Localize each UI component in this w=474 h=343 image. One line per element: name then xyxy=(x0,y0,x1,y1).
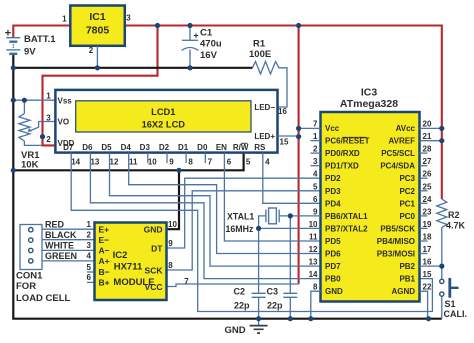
svg-text:18: 18 xyxy=(423,233,432,242)
svg-text:7: 7 xyxy=(184,277,189,286)
svg-text:11: 11 xyxy=(129,158,138,167)
svg-text:9V: 9V xyxy=(24,47,36,58)
svg-text:FOR: FOR xyxy=(16,281,36,292)
svg-text:2: 2 xyxy=(46,135,51,144)
svg-text:LED+: LED+ xyxy=(254,132,275,141)
stub ATmega pin24 PC1 xyxy=(420,202,428,204)
svg-text:14: 14 xyxy=(309,270,318,279)
svg-text:RED: RED xyxy=(45,220,65,230)
svg-text:D3: D3 xyxy=(140,143,151,152)
stub ATmega pin26 PC3 xyxy=(420,177,428,179)
svg-text:CON1: CON1 xyxy=(16,271,43,282)
svg-text:16X2 LCD: 16X2 LCD xyxy=(142,120,186,130)
svg-text:6: 6 xyxy=(87,273,92,282)
labels ATmega right ports xyxy=(377,124,416,296)
labels LCD pin numbers row xyxy=(71,158,270,167)
LCD1 screen xyxy=(76,101,251,132)
svg-text:GREEN: GREEN xyxy=(45,251,77,261)
capacitor C1 plates xyxy=(182,39,198,41)
wire ground: battery minus down left side and bottom bus (black) xyxy=(13,54,442,319)
svg-text:10K: 10K xyxy=(21,160,39,171)
wire S1 bottom to ground xyxy=(441,297,443,319)
svg-text:22p: 22p xyxy=(234,301,250,311)
stub ATmega pin23 PC0 xyxy=(420,215,428,217)
crystal XTAL1 body xyxy=(269,208,277,224)
stub ATmega pin17 PB3 xyxy=(420,253,428,255)
svg-text:PB5/SCK: PB5/SCK xyxy=(380,224,415,233)
svg-text:Vcc: Vcc xyxy=(325,124,340,133)
svg-text:9: 9 xyxy=(313,207,318,216)
wire LCD Vss to ground left bus xyxy=(13,99,55,101)
svg-text:9: 9 xyxy=(168,239,173,248)
crystal XTAL1 plates xyxy=(266,210,279,223)
capacitor C2 leads xyxy=(258,228,260,318)
potentiometer VR1 zigzag xyxy=(19,114,30,142)
svg-text:24: 24 xyxy=(423,195,432,204)
svg-text:VCC: VCC xyxy=(145,282,163,292)
svg-text:7: 7 xyxy=(313,120,318,129)
svg-text:IC3: IC3 xyxy=(361,87,378,99)
stub ATmega pin1 PC6 xyxy=(311,140,321,142)
wire CON1 to HX711 A+ xyxy=(42,260,95,262)
svg-text:R1: R1 xyxy=(253,39,266,50)
capacitor C3 plates xyxy=(283,293,297,297)
svg-text:E+: E+ xyxy=(99,224,110,234)
svg-text:12: 12 xyxy=(309,245,318,254)
svg-text:ATmega328: ATmega328 xyxy=(340,98,398,110)
svg-text:100E: 100E xyxy=(249,49,271,60)
svg-text:4: 4 xyxy=(265,158,270,167)
stub ATmega pin19 PB5 xyxy=(420,227,428,229)
svg-text:WHITE: WHITE xyxy=(45,241,74,251)
svg-text:D4: D4 xyxy=(121,143,132,152)
svg-text:15: 15 xyxy=(280,138,289,147)
svg-text:D6: D6 xyxy=(82,143,93,152)
svg-text:8: 8 xyxy=(313,283,318,292)
wire ground branch to HX711 GND pin 10 (black) xyxy=(167,170,180,229)
crystal XTAL1 leads xyxy=(259,216,321,229)
wire ground to LCD R/W pin 5 (black) xyxy=(13,153,243,171)
wire ATmega AVREF pin21 xyxy=(420,140,442,142)
svg-text:PC6/RESET: PC6/RESET xyxy=(325,137,370,146)
svg-text:C1: C1 xyxy=(200,28,213,39)
svg-text:1: 1 xyxy=(87,220,92,229)
wire ATmega Vcc pin7 to +5V xyxy=(299,127,321,129)
svg-text:PD3: PD3 xyxy=(325,187,341,196)
stub HX711 B- xyxy=(87,271,95,273)
svg-text:VO: VO xyxy=(58,118,70,127)
svg-text:15: 15 xyxy=(423,270,432,279)
pin numbers ATmega right xyxy=(423,120,432,292)
svg-text:A+: A+ xyxy=(99,256,110,266)
svg-text:25: 25 xyxy=(423,182,432,191)
LCD1 module box xyxy=(55,90,277,153)
svg-text:3: 3 xyxy=(46,114,51,123)
svg-text:D1: D1 xyxy=(178,143,189,152)
switch S1 actuator stem xyxy=(450,287,459,289)
wire VR1 top to Vss node xyxy=(23,100,25,113)
svg-text:PB2: PB2 xyxy=(399,262,415,271)
capacitor C3 leads xyxy=(289,216,291,319)
svg-text:9: 9 xyxy=(169,158,174,167)
svg-text:5: 5 xyxy=(87,263,92,272)
svg-text:27: 27 xyxy=(423,157,432,166)
wire HX711 SCK to ATmega PD3 xyxy=(167,191,321,270)
svg-text:S1: S1 xyxy=(445,299,456,309)
svg-text:10: 10 xyxy=(309,220,318,229)
svg-text:6: 6 xyxy=(227,158,232,167)
svg-text:3: 3 xyxy=(126,14,131,23)
svg-text:16MHz: 16MHz xyxy=(226,224,254,234)
svg-text:8: 8 xyxy=(168,261,173,270)
wire LED+ to +5V xyxy=(278,135,299,137)
svg-text:11: 11 xyxy=(309,233,318,242)
svg-text:4: 4 xyxy=(87,252,92,261)
svg-text:B+: B+ xyxy=(99,278,110,288)
pin numbers HX711 left xyxy=(87,220,92,282)
labels ATmega left ports xyxy=(325,124,370,296)
svg-text:7: 7 xyxy=(208,158,213,167)
svg-text:5: 5 xyxy=(246,158,251,167)
svg-text:GND: GND xyxy=(225,325,246,336)
wire LCD D6 to ATmega PB0 xyxy=(90,153,320,279)
wire +5V branch to LCD VDD via VR1 (red) xyxy=(43,26,158,146)
overline on W of R/W xyxy=(241,142,248,144)
svg-text:1: 1 xyxy=(313,132,318,141)
svg-text:3: 3 xyxy=(87,241,92,250)
svg-text:16V: 16V xyxy=(200,50,218,61)
svg-text:4.7K: 4.7K xyxy=(446,221,466,231)
svg-text:AGND: AGND xyxy=(391,287,415,296)
svg-text:21: 21 xyxy=(423,132,432,141)
stub ATmega pin18 PB4 xyxy=(420,240,428,242)
pin numbers HX711 right xyxy=(168,220,189,286)
svg-text:PC1: PC1 xyxy=(399,199,415,208)
svg-text:XTAL1: XTAL1 xyxy=(227,212,254,222)
svg-text:3: 3 xyxy=(313,157,318,166)
svg-text:14: 14 xyxy=(71,158,80,167)
svg-text:+: + xyxy=(193,31,198,41)
svg-text:470u: 470u xyxy=(200,38,222,49)
svg-text:PD2: PD2 xyxy=(325,174,341,183)
stub ATmega pin28 PC5 xyxy=(420,152,428,154)
wire ground top bus to R1 (black) xyxy=(13,67,252,69)
svg-text:C2: C2 xyxy=(234,287,246,297)
svg-text:5: 5 xyxy=(313,182,318,191)
svg-text:PD5: PD5 xyxy=(325,237,341,246)
wire CON1 to HX711 E- xyxy=(42,239,95,241)
svg-text:DT: DT xyxy=(151,244,163,254)
svg-text:PC3: PC3 xyxy=(399,174,415,183)
capacitor C1 leads xyxy=(189,26,191,68)
svg-text:AVREF: AVREF xyxy=(388,137,415,146)
stub LCD D1 xyxy=(185,153,187,163)
svg-text:13: 13 xyxy=(309,258,318,267)
svg-text:19: 19 xyxy=(423,220,432,229)
svg-text:LCD1: LCD1 xyxy=(151,107,175,117)
svg-text:10: 10 xyxy=(148,158,157,167)
svg-text:BLACK: BLACK xyxy=(45,230,77,240)
node junction dots xyxy=(11,23,445,321)
svg-text:8: 8 xyxy=(188,158,193,167)
stub ATmega pin27 PC4 xyxy=(420,165,428,167)
svg-text:PB7/XTAL2: PB7/XTAL2 xyxy=(325,224,368,233)
svg-text:Vss: Vss xyxy=(58,96,73,105)
wire ATmega AGND pin22 to ground xyxy=(420,291,428,319)
svg-text:PB6/XTAL1: PB6/XTAL1 xyxy=(325,212,368,221)
svg-text:D0: D0 xyxy=(197,143,208,152)
svg-text:12: 12 xyxy=(110,158,119,167)
wire LCD D7 to ATmega PB1 xyxy=(71,153,432,312)
svg-text:D2: D2 xyxy=(159,143,170,152)
svg-text:PD0/RXD: PD0/RXD xyxy=(325,149,360,158)
wire IC1 pin2 to ground xyxy=(96,46,98,68)
svg-text:PC4/SDA: PC4/SDA xyxy=(380,162,415,171)
svg-text:PD4: PD4 xyxy=(325,199,341,208)
svg-text:PB0: PB0 xyxy=(325,275,341,284)
svg-text:BATT.1: BATT.1 xyxy=(24,34,56,45)
overline RESET xyxy=(343,136,367,138)
wire HX711 VCC to +5V xyxy=(167,284,299,287)
wire LCD RS to ATmega PD4 xyxy=(263,153,321,204)
stub ATmega pin25 PC2 xyxy=(420,190,428,192)
svg-text:R/W: R/W xyxy=(233,143,249,152)
svg-text:1: 1 xyxy=(62,15,67,24)
svg-text:16: 16 xyxy=(423,258,432,267)
svg-text:SCK: SCK xyxy=(145,266,164,276)
wire LCD D4 to ATmega PD6 xyxy=(129,153,321,254)
svg-text:16: 16 xyxy=(278,107,287,116)
pin numbers ATmega left xyxy=(309,120,318,292)
wire +5V branch down middle to HX711 VCC (red) xyxy=(298,26,300,284)
svg-text:2: 2 xyxy=(87,231,92,240)
svg-text:GND: GND xyxy=(144,224,163,234)
wire ATmega AVcc pin20 xyxy=(420,127,442,129)
svg-text:7805: 7805 xyxy=(86,25,110,37)
stub LCD D2 xyxy=(166,153,168,163)
svg-text:2: 2 xyxy=(89,46,94,55)
wire +9V battery to IC1 pin1 (red) xyxy=(13,26,70,39)
svg-text:AVcc: AVcc xyxy=(396,124,416,133)
IC3 ATmega328 box xyxy=(321,112,420,302)
IC1 7805 regulator box xyxy=(70,6,125,46)
svg-text:17: 17 xyxy=(423,245,432,254)
wire CON1 to HX711 E+ xyxy=(42,228,95,230)
switch S1 contact circles xyxy=(440,279,444,296)
capacitor C2 plates xyxy=(252,293,266,297)
svg-text:10: 10 xyxy=(168,220,177,229)
svg-text:PD7: PD7 xyxy=(325,262,341,271)
wire ATmega PB2 pin16 to R2/S1 xyxy=(420,265,442,267)
wire CON1 to HX711 A- xyxy=(42,249,95,251)
svg-text:PD1/TXD: PD1/TXD xyxy=(325,162,359,171)
svg-text:RS: RS xyxy=(254,143,266,152)
svg-text:22p: 22p xyxy=(267,301,283,311)
IC2 HX711 module box xyxy=(95,223,167,301)
svg-text:D7: D7 xyxy=(63,143,74,152)
ground symbol GND xyxy=(258,319,260,326)
svg-text:26: 26 xyxy=(423,170,432,179)
svg-text:13: 13 xyxy=(90,158,99,167)
svg-text:PB1: PB1 xyxy=(399,275,415,284)
svg-text:E−: E− xyxy=(99,235,110,245)
wiper arrowhead xyxy=(27,128,32,132)
stub ATmega pin3 PD1 xyxy=(311,165,321,167)
svg-text:2: 2 xyxy=(313,145,318,154)
svg-text:6: 6 xyxy=(313,195,318,204)
svg-text:28: 28 xyxy=(423,145,432,154)
wire ATmega GND pin8 to ground xyxy=(311,291,321,319)
stub ATmega pin2 PD0 xyxy=(311,152,321,154)
svg-text:EN: EN xyxy=(216,143,227,152)
svg-text:PC2: PC2 xyxy=(399,187,415,196)
wire LCD D5 to ATmega PD7 xyxy=(110,153,321,267)
svg-text:R2: R2 xyxy=(448,210,460,220)
battery BATT.1 plates xyxy=(6,38,20,54)
svg-text:23: 23 xyxy=(423,207,432,216)
resistor R1 zigzag xyxy=(253,62,288,108)
svg-text:IC1: IC1 xyxy=(89,11,106,23)
stub LCD D3 xyxy=(147,153,149,163)
svg-text:PB3/MOSI: PB3/MOSI xyxy=(377,250,415,259)
svg-text:LED−: LED− xyxy=(254,103,275,112)
stub LCD D0 xyxy=(204,153,206,163)
svg-text:GND: GND xyxy=(325,287,343,296)
svg-text:+: + xyxy=(5,28,11,40)
svg-text:A−: A− xyxy=(99,246,110,256)
resistor R2 zigzag xyxy=(437,199,447,279)
svg-text:PB4/MISO: PB4/MISO xyxy=(377,237,415,246)
svg-text:D5: D5 xyxy=(101,143,112,152)
svg-text:C3: C3 xyxy=(267,287,279,297)
svg-text:IC2: IC2 xyxy=(113,250,128,261)
svg-text:20: 20 xyxy=(423,120,432,129)
svg-text:LOAD CELL: LOAD CELL xyxy=(16,293,71,304)
wire IC1 pin3 +5V top rail (red) xyxy=(125,26,442,200)
svg-text:PC0: PC0 xyxy=(399,212,415,221)
svg-text:PD6: PD6 xyxy=(325,250,341,259)
CON1 connector box xyxy=(20,225,42,270)
svg-text:PC5/SCL: PC5/SCL xyxy=(381,149,415,158)
CON1 contact circles xyxy=(29,228,33,264)
svg-text:HX711: HX711 xyxy=(114,262,143,273)
switch S1 actuator bar xyxy=(448,278,451,298)
svg-text:22: 22 xyxy=(423,283,432,292)
wiper VR1 to LCD VO xyxy=(30,122,56,132)
wire LCD EN to ATmega PD5 xyxy=(224,153,320,241)
svg-text:4: 4 xyxy=(313,170,318,179)
svg-text:CALI.: CALI. xyxy=(444,309,468,319)
labels LCD data pins row xyxy=(63,143,266,152)
stub HX711 B+ xyxy=(87,281,95,283)
svg-text:B−: B− xyxy=(99,267,110,277)
svg-text:1: 1 xyxy=(46,92,51,101)
wire VR1 bottom to VDD red wire xyxy=(24,141,42,145)
wire HX711 DT to ATmega PD2 xyxy=(167,178,321,248)
